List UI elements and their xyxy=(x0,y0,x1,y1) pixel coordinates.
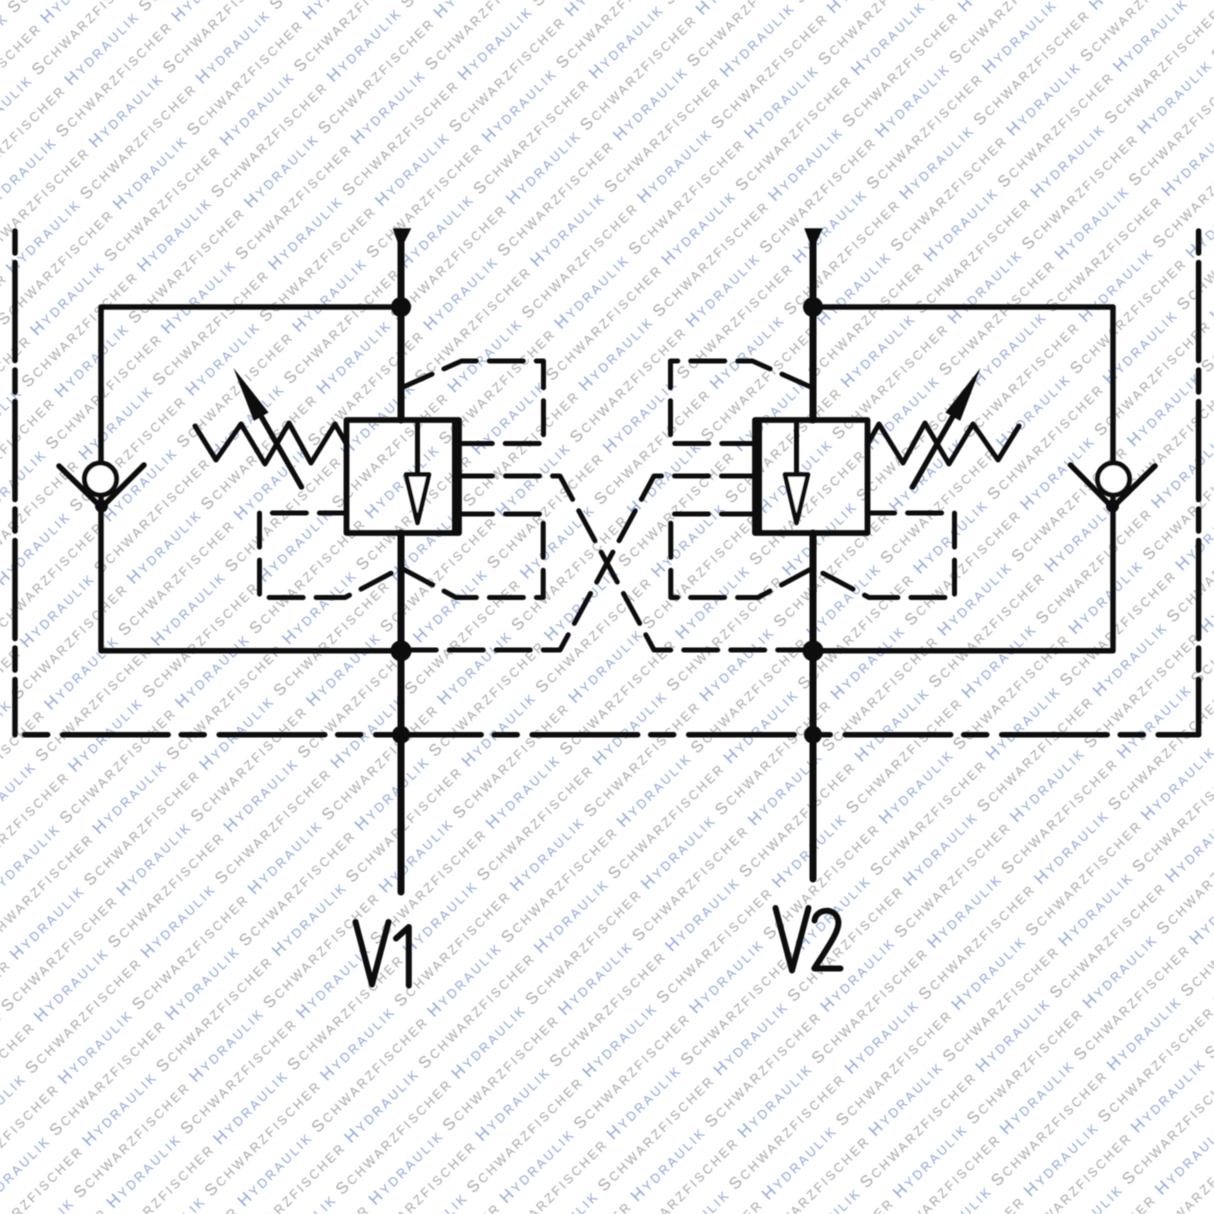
check valve seat right xyxy=(1071,465,1156,508)
adjustment arrow right xyxy=(913,409,958,487)
adjustment arrow left xyxy=(257,409,302,487)
wire V2 lower xyxy=(810,533,817,879)
wire V1 upper xyxy=(398,237,405,420)
wire V2 upper xyxy=(810,237,817,420)
boundary dash-dot left xyxy=(12,231,18,735)
label V2 xyxy=(776,908,841,971)
valve box right inner edge xyxy=(756,421,762,532)
pilot loop A right xyxy=(671,361,814,444)
junction node V2 bottom xyxy=(803,640,824,661)
spring left xyxy=(195,423,347,464)
drain loop left xyxy=(260,513,544,598)
spring right xyxy=(867,423,1019,464)
junction node V2 top xyxy=(803,297,823,317)
port arrow cap V1 xyxy=(393,228,412,242)
junction node V1 boundary xyxy=(392,726,410,744)
pilot cross line left valve xyxy=(459,476,814,650)
junction node check right xyxy=(1106,500,1119,513)
wire left check branch xyxy=(101,307,401,651)
drain loop right xyxy=(671,513,955,598)
pilot loop A left xyxy=(401,361,544,444)
junction node V1 bottom xyxy=(391,640,412,661)
junction node V1 top xyxy=(391,297,411,317)
junction node check left xyxy=(95,500,108,513)
port arrow cap V2 xyxy=(804,228,823,242)
junction node V2 boundary xyxy=(804,726,822,744)
internal flow arrow right xyxy=(794,420,799,474)
internal flow arrow left xyxy=(415,420,420,474)
check valve circle right xyxy=(1098,463,1130,495)
wire V1 lower xyxy=(398,533,405,892)
label V1 xyxy=(356,922,409,986)
wire right check branch xyxy=(813,307,1113,651)
valve box right xyxy=(755,420,868,533)
pilot cross line right valve xyxy=(401,476,756,650)
boundary dash-dot bottom xyxy=(15,732,1199,738)
boundary dash-dot right xyxy=(1196,231,1202,735)
check valve circle left xyxy=(85,463,117,495)
valve box left inner edge xyxy=(452,421,458,532)
valve box left xyxy=(347,420,460,533)
check valve seat left xyxy=(59,465,144,508)
